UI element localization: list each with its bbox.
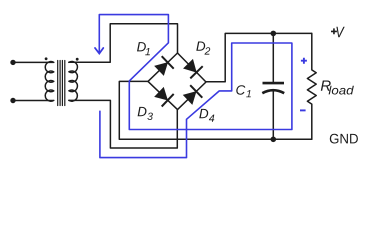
transformer T1 primary winding xyxy=(45,62,54,102)
wire secondary top to bridge top node xyxy=(69,24,178,63)
terminal dot primary bottom xyxy=(10,98,15,103)
label D3 xyxy=(138,107,153,120)
capacitor C1 curved plate xyxy=(262,90,284,93)
blue current-flow path xyxy=(99,15,292,158)
blue plus sign at Rload top xyxy=(301,58,307,64)
phasing dot secondary xyxy=(76,58,79,61)
capacitor C1 top lead xyxy=(272,33,274,83)
wire secondary bottom to bridge bottom node xyxy=(69,100,177,148)
wire primary top xyxy=(13,61,53,63)
diode D4 (bottom node to right node) xyxy=(184,85,203,104)
junction dot at GND rail and C1 xyxy=(271,137,277,143)
wire DC plus: right node to +V rail xyxy=(206,33,312,81)
bridge diamond edges xyxy=(148,53,206,110)
capacitor C1 bottom lead xyxy=(272,91,274,140)
blue arrowhead into secondary top xyxy=(95,48,103,54)
diode D1 (left node to top node) xyxy=(155,56,174,75)
label Rload xyxy=(321,81,354,95)
blue minus sign at Rload bottom xyxy=(300,109,306,111)
resistor Rload xyxy=(307,33,316,139)
terminal dot primary top xyxy=(10,60,15,65)
label +V xyxy=(331,28,337,34)
capacitor C1 top plate xyxy=(263,82,285,85)
diode D3 (left node to bottom node) xyxy=(155,88,174,107)
phasing dot primary xyxy=(45,57,48,60)
label C1 xyxy=(236,85,251,97)
transformer T1 secondary winding xyxy=(69,61,78,101)
junction dot at +V rail and C1 xyxy=(271,31,277,37)
transformer T1 core xyxy=(58,61,65,106)
wire primary bottom xyxy=(13,100,53,102)
label D1 xyxy=(137,42,150,55)
wire DC minus: left node to GND rail xyxy=(119,81,311,139)
label GND xyxy=(330,134,358,144)
label D4 xyxy=(199,109,214,122)
label D2 xyxy=(196,42,210,55)
diode D2 (top node to right node) xyxy=(184,60,203,79)
